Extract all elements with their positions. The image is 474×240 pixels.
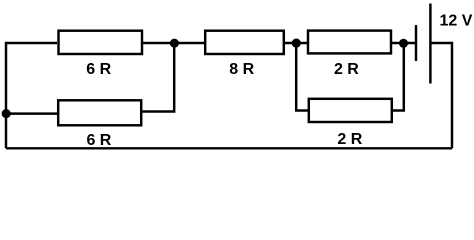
battery B1 negative plate (short): [415, 25, 417, 61]
wire: bottom rail: [6, 147, 452, 149]
node A junction dot (left rail): [2, 109, 11, 118]
svg-text:6 R: 6 R: [86, 132, 111, 149]
svg-text:6 R: 6 R: [86, 61, 111, 78]
wire: node C down to bottom 2R left lead: [296, 43, 308, 111]
wire: node D down to bottom 2R right lead: [392, 43, 404, 111]
wire: top rail between top 2R and battery (through node D): [392, 42, 416, 44]
resistor R1 box 6R (top left): [59, 31, 143, 54]
wire: bottom 6R right lead up to node B: [142, 43, 174, 112]
svg-text:12 V: 12 V: [440, 13, 473, 30]
battery B1 positive plate (long): [429, 4, 431, 84]
wire: right rail from battery positive plate down to bottom rail: [430, 43, 452, 148]
resistor R4 box 2R (top right): [308, 31, 391, 54]
svg-text:2 R: 2 R: [334, 61, 359, 78]
wire: left rail with top-left corner: [6, 43, 57, 148]
resistor R2 box 6R (bottom left): [58, 100, 141, 125]
resistor R3 box 8R (middle): [205, 31, 284, 54]
resistor R5 box 2R (bottom right): [309, 99, 392, 122]
wire: top rail between 8R and top 2R (through node C): [284, 42, 309, 44]
wire: left rail to bottom 6R resistor: [6, 112, 58, 114]
node B junction dot (between 6R and 8R): [170, 39, 179, 48]
node C junction dot (between 8R and 2R): [292, 39, 301, 48]
wire: top rail between 6R and 8R (through node B): [143, 42, 206, 44]
node D junction dot (between 2R and battery): [399, 39, 408, 48]
svg-text:2 R: 2 R: [337, 131, 362, 148]
svg-text:8 R: 8 R: [229, 61, 254, 78]
